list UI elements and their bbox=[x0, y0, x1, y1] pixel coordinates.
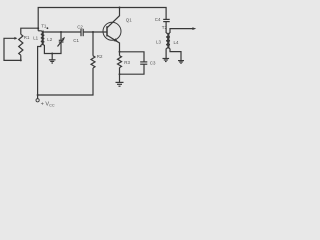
svg-text:C2: C2 bbox=[77, 24, 83, 29]
svg-text:L4: L4 bbox=[174, 40, 179, 45]
svg-text:Q1: Q1 bbox=[126, 18, 132, 23]
svg-text:R3: R3 bbox=[124, 60, 130, 65]
svg-text:L1: L1 bbox=[33, 36, 38, 41]
svg-text:L3: L3 bbox=[156, 39, 161, 44]
svg-text:R1: R1 bbox=[24, 35, 30, 40]
svg-text:C3: C3 bbox=[150, 60, 156, 65]
svg-text:C4: C4 bbox=[155, 17, 161, 22]
svg-text:R2: R2 bbox=[97, 54, 103, 59]
svg-text:T2: T2 bbox=[162, 25, 168, 30]
svg-text:L2: L2 bbox=[47, 37, 52, 42]
svg-text:T1: T1 bbox=[41, 23, 47, 28]
svg-text:C1: C1 bbox=[73, 38, 79, 43]
